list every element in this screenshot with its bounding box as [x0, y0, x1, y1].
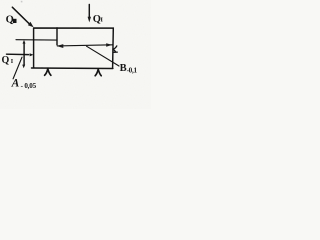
svg-text:Q: Q	[6, 15, 14, 26]
svg-text:Q: Q	[2, 55, 10, 66]
svg-text:-0,1: -0,1	[127, 66, 138, 74]
svg-text:I: I	[100, 17, 103, 24]
svg-text:- 0,05: - 0,05	[21, 82, 37, 90]
svg-text:A: A	[11, 77, 20, 89]
svg-text:B: B	[120, 63, 127, 74]
